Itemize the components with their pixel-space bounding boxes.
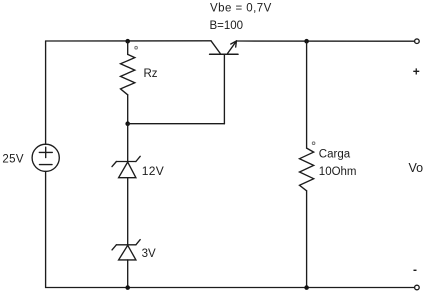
zener diode D1 12V	[112, 156, 140, 177]
label Vbe = 0,7V	[210, 2, 272, 14]
wire left rail lower	[45, 171, 47, 287]
svg-text:-: -	[413, 263, 417, 277]
label 12V	[142, 164, 164, 178]
label B=100	[210, 20, 244, 32]
label plus terminal	[413, 65, 420, 79]
transistor Q1 NPN	[210, 41, 238, 54]
label 3V	[142, 248, 156, 260]
label Rz	[144, 68, 158, 80]
node junction dot bottom left branch	[125, 285, 130, 290]
svg-text:3V: 3V	[142, 248, 156, 260]
svg-text:B=100: B=100	[210, 20, 244, 32]
terminal output plus	[415, 39, 420, 44]
label Vo	[409, 161, 424, 175]
node junction dot top of Rz	[125, 39, 130, 44]
resistor Carga 10Ohm	[300, 148, 314, 287]
wire transistor base lead	[223, 54, 225, 123]
svg-text:10Ohm: 10Ohm	[319, 166, 357, 178]
selection marker of Carga	[312, 142, 315, 145]
svg-text:Carga: Carga	[319, 149, 351, 161]
svg-text:+: +	[413, 65, 420, 79]
label 25V	[2, 154, 24, 166]
svg-text:Vbe = 0,7V: Vbe = 0,7V	[210, 2, 272, 14]
wire bottom rail	[46, 287, 415, 289]
wire top rail right segment (emitter to output)	[237, 40, 415, 42]
wire zener D2 to bottom rail	[127, 260, 129, 288]
node junction dot bottom load branch	[304, 285, 309, 290]
wire top rail left segment	[46, 40, 211, 42]
wire node A to transistor base	[128, 123, 225, 125]
svg-text:Vo: Vo	[409, 161, 424, 175]
svg-text:Rz: Rz	[144, 68, 158, 80]
terminal output minus	[415, 285, 420, 290]
label 10Ohm	[319, 166, 357, 178]
wire between zeners	[127, 178, 129, 245]
label minus terminal	[413, 263, 417, 277]
voltage source V1 25V	[32, 144, 59, 171]
wire load branch upper	[306, 41, 308, 148]
node junction dot top of load	[304, 39, 309, 44]
selection marker of Rz	[135, 46, 138, 49]
resistor Rz	[121, 41, 135, 124]
wire left rail upper	[45, 41, 47, 144]
svg-text:25V: 25V	[2, 154, 24, 166]
zener diode D2 3V	[112, 240, 140, 260]
svg-text:12V: 12V	[142, 164, 164, 178]
wire node A to zener D1	[127, 124, 129, 162]
label Carga	[319, 149, 351, 161]
node A junction dot (Rz / zener / base wire)	[125, 121, 130, 126]
